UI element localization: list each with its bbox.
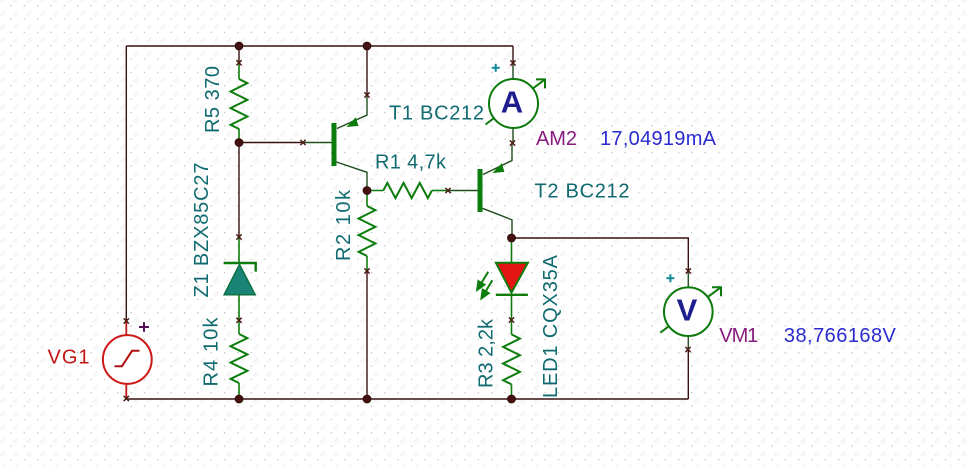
svg-text:Z1 BZX85C27: Z1 BZX85C27 <box>191 163 213 298</box>
svg-text:T2 BC212: T2 BC212 <box>535 181 630 203</box>
svg-text:R5 370: R5 370 <box>202 66 224 133</box>
svg-text:AM2: AM2 <box>536 128 577 150</box>
svg-text:R3 2,2k: R3 2,2k <box>476 318 498 388</box>
svg-text:R4 10k: R4 10k <box>201 317 223 387</box>
svg-text:R1 4,7k: R1 4,7k <box>375 152 447 174</box>
svg-text:VG1: VG1 <box>48 347 90 369</box>
svg-text:LED1 CQX35A: LED1 CQX35A <box>540 254 562 398</box>
svg-text:VM1: VM1 <box>719 325 758 347</box>
svg-text:A: A <box>501 84 523 119</box>
svg-text:38,766168V: 38,766168V <box>784 325 897 347</box>
svg-text:17,04919mA: 17,04919mA <box>600 128 717 150</box>
svg-text:V: V <box>677 292 698 327</box>
svg-text:T1 BC212: T1 BC212 <box>389 103 484 125</box>
svg-text:R2 10k: R2 10k <box>333 189 355 261</box>
